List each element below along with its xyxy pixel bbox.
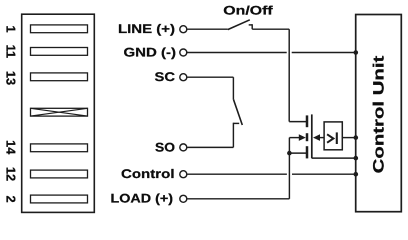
MOSFET channel segment source xyxy=(306,146,309,158)
svg-text:GND (-): GND (-) xyxy=(124,45,177,59)
On/Off fixed contact stub xyxy=(251,24,253,29)
unused crossed slot xyxy=(31,108,88,116)
wire Control left of crossing xyxy=(187,173,287,175)
svg-text:Control Unit: Control Unit xyxy=(371,56,388,174)
wire Control right of crossing xyxy=(292,173,356,175)
MOSFET channel segment drain xyxy=(306,115,309,127)
svg-text:14: 14 xyxy=(4,140,19,155)
wire body riser xyxy=(288,138,290,154)
terminal circle Control xyxy=(180,171,187,178)
junction dot GND at control unit xyxy=(354,50,359,55)
On/Off switch blade xyxy=(228,20,250,30)
svg-text:Control: Control xyxy=(121,167,175,181)
svg-text:11: 11 xyxy=(4,45,19,59)
wire body line xyxy=(289,137,300,139)
gate driver wire to gate xyxy=(319,137,325,139)
svg-text:2: 2 xyxy=(4,195,19,202)
terminal slot 13 xyxy=(31,73,88,81)
wire SC xyxy=(187,76,233,78)
terminal circle GND xyxy=(180,49,187,56)
terminal circle SO xyxy=(180,144,187,151)
terminal slot 1 xyxy=(31,25,88,33)
SO fixed contact tick xyxy=(233,122,239,124)
svg-text:12: 12 xyxy=(4,167,19,181)
wire LOAD up to source xyxy=(288,153,290,199)
wire switch to corner xyxy=(252,28,289,30)
gate driver wire to control unit xyxy=(342,137,355,139)
wire down to drain xyxy=(288,29,290,121)
terminal circle LOAD xyxy=(180,195,187,202)
svg-text:On/Off: On/Off xyxy=(223,4,274,18)
gate driver box U1 xyxy=(324,122,342,150)
On/Off fixed contact tick xyxy=(249,24,253,26)
wire SO up xyxy=(232,123,234,148)
terminal circle SC xyxy=(180,74,187,81)
junction dot gate net xyxy=(354,156,359,161)
terminal block body xyxy=(22,14,95,212)
svg-text:LOAD (+): LOAD (+) xyxy=(111,192,174,206)
gate line bottom wire to control unit xyxy=(312,157,356,159)
gate driver arrow xyxy=(313,134,320,141)
Control Unit box xyxy=(356,15,402,212)
crossed slot X xyxy=(31,108,88,116)
terminal circle LINE xyxy=(180,26,187,33)
svg-text:SO: SO xyxy=(155,140,175,154)
wire drain stub xyxy=(289,121,306,123)
gate driver symbol > xyxy=(327,134,333,142)
MOSFET body arrow xyxy=(299,134,306,141)
terminal slot 14 xyxy=(31,144,88,152)
SC/SO switch blade xyxy=(233,99,242,125)
terminal slot 2 xyxy=(31,195,88,203)
junction dot driver supply xyxy=(354,135,359,140)
terminal slot 12 xyxy=(31,170,88,178)
wire source stub xyxy=(289,152,306,154)
wire GND left of crossing xyxy=(187,52,287,54)
wire LOAD xyxy=(187,198,289,200)
svg-text:13: 13 xyxy=(4,71,19,85)
wire LINE to switch xyxy=(187,28,228,30)
MOSFET Q1 xyxy=(307,114,312,158)
gate driver symbol I xyxy=(336,132,338,144)
svg-text:1: 1 xyxy=(4,25,19,32)
MOSFET channel segment body xyxy=(306,133,309,141)
svg-text:LINE (+): LINE (+) xyxy=(118,22,175,36)
junction dot source/body/load node xyxy=(287,151,292,156)
MOSFET gate electrode xyxy=(311,114,313,158)
wire SO xyxy=(187,146,233,148)
terminal slot 11 xyxy=(31,48,88,56)
svg-text:SC: SC xyxy=(155,70,176,84)
wire SC down xyxy=(232,77,234,99)
junction dot Control xyxy=(354,172,359,177)
wire GND right of crossing xyxy=(292,52,356,54)
